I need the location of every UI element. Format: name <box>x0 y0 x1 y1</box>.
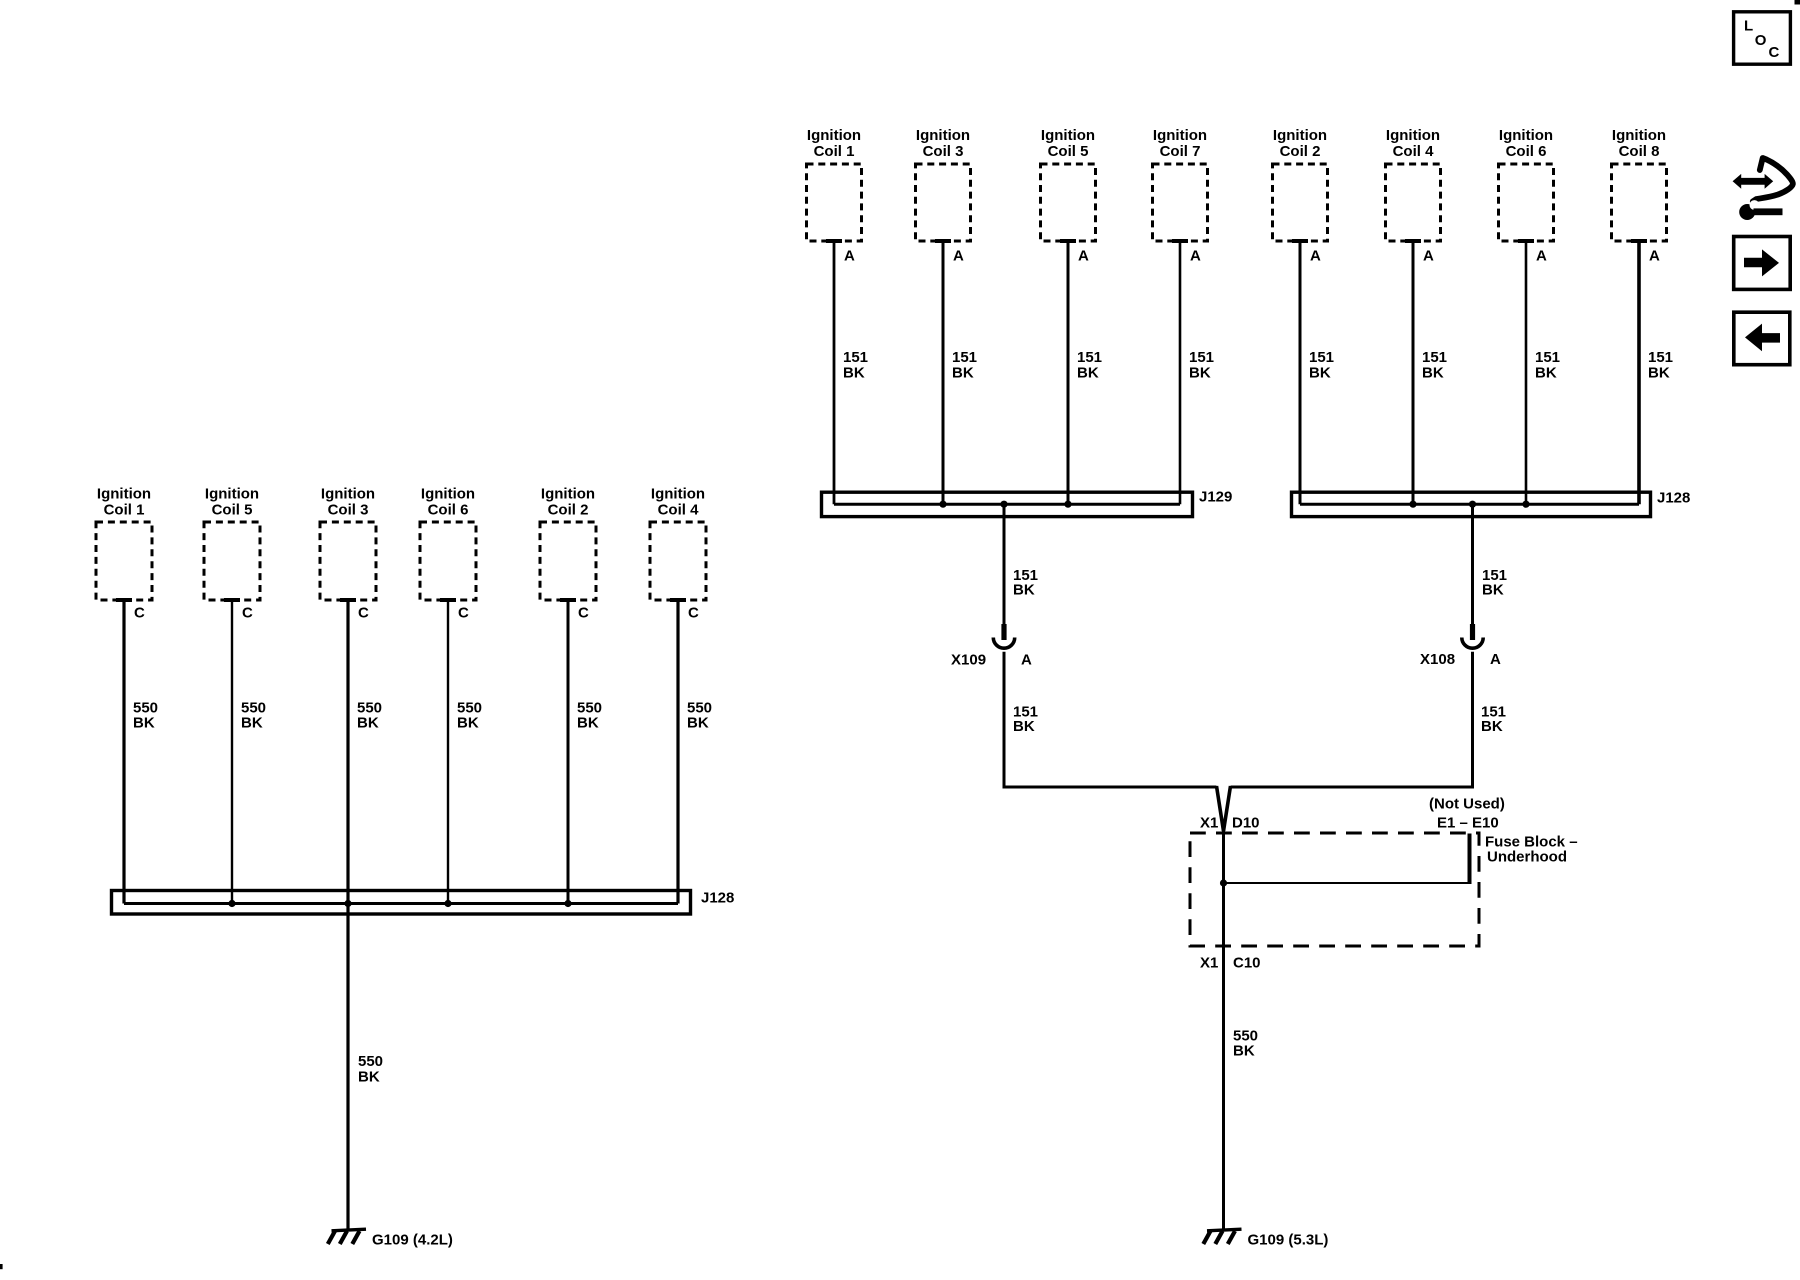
label 151 BK (coil 4 5.3L) <box>1422 349 1447 382</box>
svg-text:A: A <box>844 248 855 265</box>
svg-text:BK: BK <box>1422 364 1444 381</box>
junction at x=1068 on J129 <box>1064 501 1071 508</box>
svg-text:Coil 5: Coil 5 <box>212 501 253 518</box>
svg-text:Coil 6: Coil 6 <box>428 501 469 518</box>
svg-text:151: 151 <box>1422 349 1447 366</box>
connector X108 symbol <box>1462 624 1483 648</box>
svg-text:C: C <box>134 604 145 621</box>
wire 151 BK X108 horizontal run <box>1231 786 1475 789</box>
label 550 BK (coil 5) <box>241 699 266 731</box>
svg-text:BK: BK <box>843 364 865 381</box>
junction at x=348 on J128 <box>344 900 351 907</box>
svg-text:Coil 7: Coil 7 <box>1160 143 1201 160</box>
svg-text:151: 151 <box>1077 349 1102 366</box>
hotlink icon: double arrow with wrench <box>1733 158 1793 220</box>
svg-text:Coil 1: Coil 1 <box>814 143 855 160</box>
LOC icon box <box>1734 12 1791 64</box>
ignition coil 6 (4.2L bank) <box>420 485 476 600</box>
wire 151 BK X108 down <box>1471 652 1474 786</box>
svg-text:BK: BK <box>1535 364 1557 381</box>
svg-text:151: 151 <box>1535 349 1560 366</box>
svg-text:151: 151 <box>1189 349 1214 366</box>
svg-text:A: A <box>953 248 964 265</box>
svg-text:BK: BK <box>577 714 599 731</box>
wire 151 BK coil 4 to splice <box>1412 241 1415 504</box>
svg-text:O: O <box>1755 32 1767 49</box>
label 151 BK (above X109) <box>1013 567 1038 599</box>
junction at x=1472.5 on J128 right <box>1469 501 1476 508</box>
svg-text:Coil 4: Coil 4 <box>1393 143 1434 160</box>
ignition coil 3 (5.3L bank) <box>916 127 971 241</box>
svg-text:BK: BK <box>1309 364 1331 381</box>
svg-text:X109: X109 <box>951 651 986 668</box>
svg-text:Coil 8: Coil 8 <box>1619 143 1660 160</box>
svg-text:151: 151 <box>1648 349 1673 366</box>
ignition coil 1 (5.3L bank) <box>807 127 862 241</box>
svg-text:Ignition: Ignition <box>421 485 475 502</box>
svg-text:Coil 1: Coil 1 <box>104 501 145 518</box>
svg-text:BK: BK <box>1013 582 1035 599</box>
stub E1-E10 (not used) <box>1468 834 1472 885</box>
ground G109 (5.3L) <box>1203 1229 1241 1244</box>
splice pack J128 (4.2L) <box>112 891 691 915</box>
ignition coil 2 (4.2L bank) <box>540 485 596 600</box>
junction at x=1413 on J128 right <box>1409 501 1416 508</box>
svg-text:Ignition: Ignition <box>807 127 861 144</box>
svg-text:D10: D10 <box>1232 814 1260 831</box>
svg-text:Ignition: Ignition <box>1499 127 1553 144</box>
wire 550 BK J128 to G109 <box>346 904 349 1231</box>
svg-text:BK: BK <box>1233 1042 1255 1059</box>
wire 550 BK coil 2 to J128 <box>567 600 570 904</box>
svg-text:Ignition: Ignition <box>97 485 151 502</box>
svg-text:C: C <box>688 604 699 621</box>
svg-text:J129: J129 <box>1199 489 1232 506</box>
svg-text:A: A <box>1021 651 1032 668</box>
ignition coil 2 (5.3L bank) <box>1273 127 1328 241</box>
ignition coil 5 (4.2L bank) <box>204 485 260 600</box>
label 550 BK (coil 3) <box>357 699 382 731</box>
junction at x=943 on J129 <box>939 501 946 508</box>
page edge mark top right <box>1795 0 1800 5</box>
svg-text:Ignition: Ignition <box>1612 127 1666 144</box>
wire 151 BK coil 6 to splice <box>1525 241 1528 504</box>
connector V notch at X1 D10 <box>1217 786 1231 831</box>
svg-text:Ignition: Ignition <box>1041 127 1095 144</box>
wire 550 BK coil 3 to J128 <box>346 600 349 904</box>
wire 151 BK coil 3 to splice <box>942 241 945 504</box>
ignition coil 6 (5.3L bank) <box>1499 127 1554 241</box>
ignition coil 4 (4.2L bank) <box>650 485 706 600</box>
label 151 BK (below X109) <box>1013 703 1038 735</box>
svg-text:Ignition: Ignition <box>1386 127 1440 144</box>
wire 550 BK coil 5 to J128 <box>231 600 233 904</box>
svg-text:(Not Used): (Not Used) <box>1429 796 1505 813</box>
wire 151 BK J129 to X109 <box>1003 504 1006 624</box>
fuse block outline <box>1190 833 1479 946</box>
svg-text:Ignition: Ignition <box>541 485 595 502</box>
svg-text:550: 550 <box>358 1053 383 1070</box>
label 151 BK (coil 5 5.3L) <box>1077 349 1102 382</box>
svg-text:C: C <box>1769 44 1780 61</box>
ignition coil 5 (5.3L bank) <box>1041 127 1096 241</box>
wire 151 BK coil 5 to splice <box>1067 241 1070 504</box>
svg-text:C: C <box>458 604 469 621</box>
wire 151 BK coil 2 to splice <box>1299 241 1302 504</box>
junction at x=232 on J128 <box>228 900 235 907</box>
svg-text:BK: BK <box>1189 364 1211 381</box>
label 550 BK (ground wire 4.2L) <box>358 1053 383 1086</box>
svg-text:J128: J128 <box>1657 490 1690 507</box>
svg-text:Ignition: Ignition <box>1273 127 1327 144</box>
svg-text:Coil 2: Coil 2 <box>1280 143 1321 160</box>
svg-text:Ignition: Ignition <box>916 127 970 144</box>
junction at x=1526 on J128 right <box>1522 501 1529 508</box>
svg-text:BK: BK <box>357 714 379 731</box>
ignition coil 8 (5.3L bank) <box>1612 127 1667 241</box>
label 151 BK (coil 7 5.3L) <box>1189 349 1214 382</box>
svg-text:E1 – E10: E1 – E10 <box>1437 814 1499 831</box>
splice pack J128 (5.3L) <box>1292 492 1651 516</box>
label 151 BK (coil 6 5.3L) <box>1535 349 1560 382</box>
svg-text:151: 151 <box>843 349 868 366</box>
svg-text:BK: BK <box>457 714 479 731</box>
svg-text:BK: BK <box>1482 582 1504 599</box>
svg-text:A: A <box>1423 248 1434 265</box>
svg-text:C: C <box>242 604 253 621</box>
svg-text:BK: BK <box>952 364 974 381</box>
svg-text:A: A <box>1190 248 1201 265</box>
label 550 BK (coil 6) <box>457 699 482 731</box>
wire 151 BK coil 7 to splice <box>1179 241 1182 504</box>
ignition coil 3 (4.2L bank) <box>320 485 376 600</box>
svg-text:151: 151 <box>952 349 977 366</box>
svg-text:X1: X1 <box>1200 954 1218 971</box>
svg-text:Coil 3: Coil 3 <box>923 143 964 160</box>
label 151 BK (below X108) <box>1481 703 1506 735</box>
wire 151 BK coil 1 to splice <box>833 241 836 504</box>
svg-text:BK: BK <box>1648 364 1670 381</box>
svg-text:A: A <box>1490 651 1501 668</box>
svg-text:C10: C10 <box>1233 954 1261 971</box>
connector X109 symbol <box>993 624 1014 648</box>
junction at x=568 on J128 <box>564 900 571 907</box>
svg-text:Coil 5: Coil 5 <box>1048 143 1089 160</box>
junction at x=448 on J128 <box>444 900 451 907</box>
forward arrow icon <box>1734 237 1791 290</box>
ground G109 (4.2L) <box>328 1229 366 1244</box>
wire 151 BK J128 to X108 <box>1471 504 1474 624</box>
svg-text:Ignition: Ignition <box>651 485 705 502</box>
junction inside fuse block <box>1220 879 1227 886</box>
svg-text:BK: BK <box>1013 718 1035 735</box>
svg-text:151: 151 <box>1309 349 1334 366</box>
junction at x=1004 on J129 <box>1000 501 1007 508</box>
svg-text:A: A <box>1536 248 1547 265</box>
wire 550 BK coil 6 to J128 <box>447 600 449 904</box>
svg-text:Ignition: Ignition <box>205 485 259 502</box>
ignition coil 7 (5.3L bank) <box>1153 127 1208 241</box>
svg-text:X108: X108 <box>1420 651 1455 668</box>
svg-text:BK: BK <box>1481 718 1503 735</box>
svg-text:Ignition: Ignition <box>321 485 375 502</box>
label 550 BK (coil 1) <box>133 699 158 731</box>
wire 550 BK coil 1 to J128 <box>122 600 125 904</box>
svg-text:J128: J128 <box>701 889 734 906</box>
wire through fuse block D10 to C10 <box>1222 830 1225 946</box>
svg-text:C: C <box>358 604 369 621</box>
label 151 BK (coil 8 5.3L) <box>1648 349 1673 382</box>
wire 151 BK coil 8 to splice <box>1637 241 1641 504</box>
svg-text:X1: X1 <box>1200 814 1218 831</box>
splice pack J129 <box>822 492 1193 516</box>
svg-text:Ignition: Ignition <box>1153 127 1207 144</box>
svg-text:BK: BK <box>1077 364 1099 381</box>
label 151 BK (above X108) <box>1482 567 1507 599</box>
svg-text:Underhood: Underhood <box>1487 848 1567 865</box>
label 550 BK (ground wire 5.3L) <box>1233 1027 1258 1059</box>
svg-text:BK: BK <box>241 714 263 731</box>
internal bus to E1-E10 <box>1224 882 1470 884</box>
label 151 BK (coil 3 5.3L) <box>952 349 977 382</box>
ignition coil 4 (5.3L bank) <box>1386 127 1441 241</box>
svg-text:Coil 6: Coil 6 <box>1506 143 1547 160</box>
wire 151 BK X109 down <box>1003 652 1006 786</box>
svg-text:L: L <box>1744 17 1753 34</box>
label 550 BK (coil 2) <box>577 699 602 731</box>
wire 550 BK C10 to G109 <box>1222 946 1225 1230</box>
svg-text:A: A <box>1078 248 1089 265</box>
svg-text:G109 (4.2L): G109 (4.2L) <box>372 1231 453 1248</box>
wire 151 BK X109 horizontal run <box>1003 786 1217 789</box>
svg-text:A: A <box>1310 248 1321 265</box>
svg-text:BK: BK <box>687 714 709 731</box>
svg-text:A: A <box>1649 248 1660 265</box>
page edge mark bottom left <box>0 1264 3 1269</box>
svg-text:Coil 3: Coil 3 <box>328 501 369 518</box>
wire 550 BK coil 4 to J128 <box>676 600 679 904</box>
back arrow icon <box>1734 312 1790 365</box>
svg-text:BK: BK <box>133 714 155 731</box>
svg-text:Coil 2: Coil 2 <box>548 501 589 518</box>
label 151 BK (coil 2 5.3L) <box>1309 349 1334 382</box>
label 151 BK (coil 1 5.3L) <box>843 349 868 382</box>
svg-text:Coil 4: Coil 4 <box>658 501 699 518</box>
svg-text:G109 (5.3L): G109 (5.3L) <box>1248 1231 1329 1248</box>
svg-text:C: C <box>578 604 589 621</box>
svg-text:BK: BK <box>358 1068 380 1085</box>
ignition coil 1 (4.2L bank) <box>96 485 152 600</box>
label 550 BK (coil 4) <box>687 699 712 731</box>
